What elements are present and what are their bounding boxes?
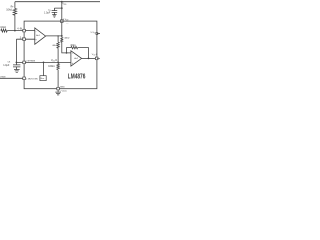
pin 3 +IN square [23, 38, 26, 41]
ground CB [14, 70, 20, 73]
wire shutdown trace [0, 77, 23, 79]
wire VO1 tick [97, 33, 100, 35]
wire feedback riser left [14, 2, 16, 31]
pin 2 BYPASS square [23, 61, 26, 64]
svg-text:5 VO1: 5 VO1 [91, 32, 97, 34]
ground GND pin [55, 92, 61, 95]
node A2 output feedback [88, 58, 90, 60]
pin 4 -IN square [23, 29, 26, 32]
wire +IN to A1 [16, 38, 34, 40]
node VDD rail tap [61, 1, 63, 3]
op-amp A2 [71, 51, 82, 66]
capacitor CS plates [52, 11, 58, 13]
svg-text:-: - [72, 51, 73, 55]
pin 7 GND square [57, 87, 60, 90]
svg-text:1.0µF: 1.0µF [44, 12, 51, 15]
chip boundary box LM4876 [24, 21, 97, 89]
svg-text:10kΩ: 10kΩ [6, 8, 12, 11]
svg-text:100kΩ: 100kΩ [48, 65, 55, 68]
svg-text:6 VDD: 6 VDD [63, 19, 69, 21]
ground CS [52, 15, 56, 18]
resistor 40k A2 feedback [67, 48, 89, 59]
svg-text:VO2 8: VO2 8 [92, 54, 98, 56]
wire VDD pin drop [61, 2, 63, 36]
svg-text:+: + [35, 39, 37, 42]
svg-text:.....: ..... [66, 23, 69, 25]
pin 5 VO1 square [96, 33, 98, 35]
svg-text:10kΩ: 10kΩ [0, 26, 6, 29]
svg-text:LM4876: LM4876 [68, 74, 86, 81]
wire VDD top rail [15, 1, 100, 3]
bias box [40, 76, 46, 81]
wire A1 output [46, 35, 62, 37]
resistor 100k to GND [57, 62, 59, 87]
svg-text:Av1: Av1 [36, 34, 40, 37]
pin 1 SD square [23, 77, 26, 80]
wire VO2 stub [97, 57, 100, 59]
node A2 inverting input [66, 52, 68, 54]
svg-text:7 (1,6): 7 (1,6) [60, 91, 66, 93]
node -IN junction [14, 30, 16, 32]
svg-text:GND: GND [60, 87, 65, 89]
svg-text:Bias: Bias [41, 78, 45, 80]
node bypass/CB junction [16, 62, 18, 64]
svg-text:1.0µF: 1.0µF [3, 64, 10, 67]
svg-text:40kΩ: 40kΩ [52, 44, 58, 47]
resistor RA 40k column [57, 36, 59, 63]
pin 6 VDD square [61, 20, 64, 23]
capacitor CB [13, 62, 20, 69]
svg-text:40kΩ: 40kΩ [64, 37, 70, 40]
resistor RB 40k column to A2 inverting input [62, 36, 71, 53]
svg-text:1 SHUTDOWN: 1 SHUTDOWN [26, 78, 38, 80]
op-amp A1 [35, 28, 46, 44]
svg-text:40kΩ: 40kΩ [70, 44, 76, 47]
svg-text:VDD: VDD [62, 4, 67, 6]
svg-text:-: - [36, 29, 37, 33]
resistor RF [13, 9, 16, 16]
svg-text:SHUTDOWN: SHUTDOWN [0, 77, 6, 79]
node 100k tap [57, 62, 59, 64]
resistor RI [1, 29, 7, 32]
node bias tap [43, 62, 45, 64]
svg-text:2 BYPASS: 2 BYPASS [26, 60, 36, 63]
wire A2 output VO2 [82, 57, 97, 59]
node A1 out / Ra junction [57, 35, 58, 36]
svg-text:VDD/2: VDD/2 [51, 60, 58, 62]
wire CS stub [54, 8, 61, 14]
wire +IN down to bypass node [15, 39, 17, 62]
wire bypass node to A2 + input [16, 61, 71, 63]
wire GND stub below [57, 90, 59, 92]
svg-text:4 -IN: 4 -IN [17, 29, 22, 31]
wire -IN to A1 [7, 30, 35, 32]
svg-text:Av2: Av2 [74, 57, 78, 60]
pin 8 VO2 square [95, 57, 98, 60]
node CS tap [61, 7, 63, 9]
wire bias box riser [43, 62, 45, 75]
